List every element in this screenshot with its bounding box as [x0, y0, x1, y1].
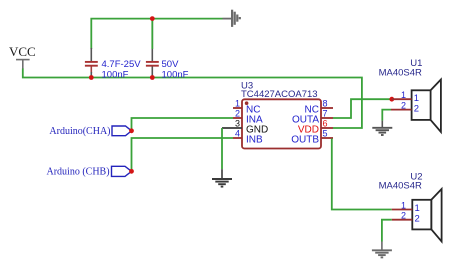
svg-text:1: 1 — [401, 90, 406, 100]
svg-text:4: 4 — [235, 129, 240, 139]
ground (below U3) — [212, 169, 232, 186]
wire U2 pin2 to ground — [382, 220, 392, 242]
svg-text:7: 7 — [323, 109, 328, 119]
wire U1 pin2 to ground — [382, 110, 391, 121]
junction dot U1 pin1 — [389, 97, 394, 102]
svg-text:4.7F-25V: 4.7F-25V — [102, 59, 142, 70]
speaker U2 — [392, 189, 442, 241]
svg-text:Arduino (CHB): Arduino (CHB) — [47, 167, 110, 178]
wire GND pin3 to ground — [221, 128, 223, 169]
U1 pin 1 stub — [392, 98, 412, 100]
svg-text:1: 1 — [414, 93, 419, 104]
power port VCC — [9, 44, 36, 69]
svg-text:5: 5 — [323, 129, 328, 139]
ground (below U2) — [372, 242, 392, 258]
pin 1 stub — [233, 107, 242, 109]
pin 8 stub — [321, 107, 333, 109]
svg-text:TC4427ACOA713: TC4427ACOA713 — [241, 89, 318, 100]
svg-text:INB: INB — [246, 134, 263, 145]
port Arduino(CHA) — [49, 126, 131, 137]
svg-text:MA40S4R: MA40S4R — [379, 181, 422, 192]
pin 1 marker dot — [245, 101, 249, 105]
IC U3 body — [242, 99, 321, 148]
U2 pin 1 stub — [392, 209, 413, 211]
wire CHA to INA — [132, 118, 234, 131]
pin 4 stub — [233, 137, 242, 139]
speaker U1 — [391, 80, 441, 132]
svg-text:1: 1 — [401, 200, 406, 210]
svg-text:OUTB: OUTB — [291, 134, 319, 145]
wire top ground rail — [91, 19, 222, 49]
capacitor C1 (4.7F-25V 100nF) — [85, 48, 141, 81]
U2 pin 2 stub — [392, 219, 413, 221]
junction dot cap2 top — [150, 16, 155, 21]
wire CHB to INB — [132, 138, 234, 171]
pin 3 stub (GND) — [222, 127, 242, 129]
wire VCC rail — [23, 69, 362, 129]
svg-text:MA40S4R: MA40S4R — [379, 67, 422, 78]
svg-text:VCC: VCC — [9, 44, 36, 59]
svg-text:1: 1 — [235, 99, 240, 109]
svg-text:2: 2 — [414, 103, 419, 114]
junction dot CHB — [129, 169, 134, 174]
ground (below U1) — [372, 121, 392, 135]
pin 7 stub — [321, 117, 333, 119]
svg-text:8: 8 — [323, 99, 328, 109]
capacitor C2 (50V 100nF) — [146, 19, 189, 81]
junction dot cap1 bottom — [89, 75, 94, 80]
svg-text:2: 2 — [401, 211, 406, 221]
svg-text:1: 1 — [415, 203, 420, 214]
svg-text:100nF: 100nF — [162, 70, 189, 81]
junction dot cap2 bottom — [150, 75, 155, 80]
svg-text:50V: 50V — [162, 59, 180, 70]
svg-text:100nF: 100nF — [102, 70, 129, 81]
wire OUTA to U1 pin1 — [333, 99, 392, 118]
svg-text:2: 2 — [401, 100, 406, 110]
wire OUTB to U2 pin1 — [332, 139, 392, 210]
pin 6 stub — [321, 127, 333, 129]
pin 2 stub — [233, 117, 242, 119]
ground (top right, rotated) — [223, 10, 240, 27]
svg-text:3: 3 — [235, 119, 240, 129]
junction dot CHA — [129, 128, 134, 133]
svg-text:2: 2 — [235, 109, 240, 119]
port Arduino (CHB) — [47, 166, 132, 177]
pin 5 stub — [321, 137, 333, 139]
svg-text:Arduino(CHA): Arduino(CHA) — [49, 126, 110, 137]
svg-text:2: 2 — [415, 214, 420, 225]
svg-text:6: 6 — [323, 119, 328, 129]
U1 pin 2 stub — [391, 109, 412, 111]
